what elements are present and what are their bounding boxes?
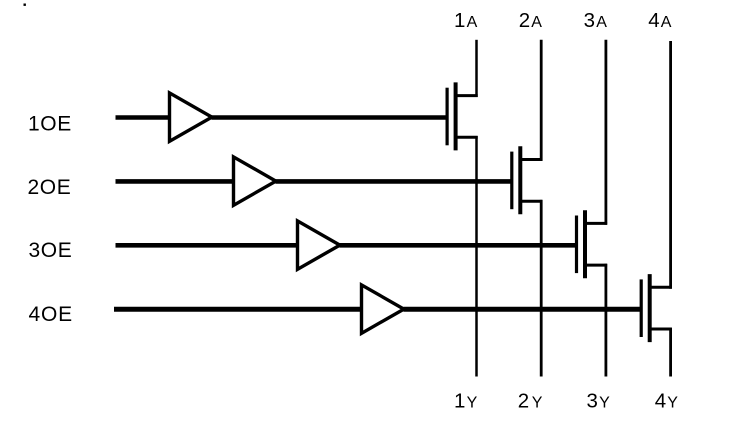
stray dot (top-left artifact) (24, 4, 26, 6)
svg-text:4A: 4A (648, 9, 672, 32)
wire 4OE input (114, 307, 362, 312)
svg-text:3Y: 3Y (587, 389, 611, 412)
buffer U1 (170, 93, 212, 141)
svg-text:3OE: 3OE (29, 239, 73, 262)
svg-text:2OE: 2OE (28, 176, 72, 199)
wire 3A vertical (605, 40, 608, 225)
buffer U3 (298, 221, 340, 269)
wire 2OE input (116, 179, 234, 184)
transistor Q3 (577, 210, 608, 278)
svg-text:1Y: 1Y (454, 389, 478, 412)
wire 1A vertical (475, 40, 478, 97)
buffer U2 (234, 157, 276, 205)
wire 1OE input (116, 115, 170, 120)
transistor Q4 (641, 274, 672, 342)
svg-text:4Y: 4Y (655, 389, 679, 412)
svg-text:2A: 2A (519, 9, 543, 32)
svg-text:3A: 3A (584, 9, 608, 32)
wire 2Y vertical (540, 200, 543, 377)
wire 1Y vertical (475, 136, 478, 377)
wire 2A vertical (540, 40, 543, 161)
svg-text:1OE: 1OE (28, 112, 72, 135)
svg-text:4OE: 4OE (29, 303, 73, 326)
wire 4A vertical (669, 41, 672, 289)
transistor Q1 (447, 82, 478, 150)
svg-text:2Y: 2Y (518, 389, 543, 412)
wire 3OE input (116, 243, 298, 248)
svg-text:1A: 1A (454, 9, 478, 32)
wire 3Y vertical (605, 264, 608, 377)
wire 4Y vertical (669, 328, 672, 377)
wire U3 output to Q3 gate (340, 243, 576, 248)
buffer U4 (362, 285, 404, 333)
transistor Q2 (512, 146, 543, 214)
wire U2 output to Q2 gate (276, 179, 512, 184)
wire U4 output to Q4 gate (404, 307, 641, 312)
wire U1 output to Q1 gate (212, 115, 447, 120)
